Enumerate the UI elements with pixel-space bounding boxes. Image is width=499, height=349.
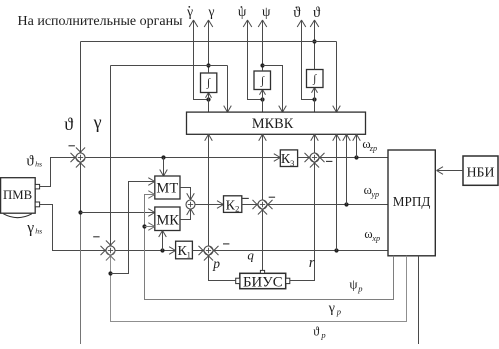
minus after K2: [242, 197, 248, 199]
svg-text:yp: yp: [370, 190, 379, 199]
label psi: [262, 4, 271, 19]
wire MKVK to integrator I2: [260, 90, 266, 113]
svg-text:γ: γ: [208, 4, 215, 19]
label gamma-dot: [186, 4, 193, 19]
label gamma (feedback): [93, 112, 102, 132]
svg-text:ψ: ψ: [238, 4, 247, 19]
wire K1S output up to MKVK: [205, 134, 213, 246]
block MKVK: [187, 112, 366, 134]
svg-text:p: p: [336, 307, 341, 317]
block MT: [155, 176, 180, 199]
junction dot theta_p to MK: [78, 210, 82, 214]
label omega_xp: [364, 227, 380, 243]
wire MKVK to integrator I1: [206, 93, 212, 113]
junction dot row3 to MK: [160, 248, 164, 252]
svg-text:p: p: [357, 284, 362, 294]
block NBI: [463, 156, 498, 185]
wire MKVK to integrator I3: [312, 88, 318, 113]
minus at K1S: [223, 243, 229, 245]
wire branch up to MK bottom: [159, 231, 167, 251]
wire gamma_p feedback: [106, 251, 407, 321]
wire theta-dot output: [297, 20, 314, 100]
svg-text:МК: МК: [156, 213, 179, 229]
junction dot omega_xp: [334, 248, 338, 252]
wire theta into MKVK: [333, 42, 341, 113]
junction dot psi-dot tap: [260, 97, 264, 101]
junction dot psi_p to MK: [142, 224, 146, 228]
wire psi-dot output: [243, 20, 262, 100]
label r: [309, 255, 315, 271]
label theta-dot: [293, 5, 301, 21]
summator S2 (gamma_hs): [106, 246, 115, 255]
wire omega_yp MRPD to K2S: [263, 200, 388, 209]
junction dot gamma feedback: [206, 63, 210, 67]
svg-text:hs: hs: [35, 159, 42, 168]
svg-text:ψ: ψ: [349, 277, 357, 292]
wire theta down left side: [76, 42, 85, 157]
summator S3 (MT+MK): [186, 200, 195, 209]
wire omega_zp up to MKVK: [353, 134, 361, 157]
wire psi output: [258, 20, 267, 71]
wire S3 to K2: [195, 201, 224, 209]
wire NBI to MRPD: [437, 167, 464, 175]
svg-text:ϑ: ϑ: [313, 325, 320, 339]
svg-text:ψ: ψ: [262, 4, 271, 19]
wire q BIUS to K2S: [258, 205, 267, 270]
label theta_p: [313, 325, 325, 340]
BIUS top pin: [260, 270, 264, 273]
svg-text:ПМВ: ПМВ: [3, 188, 32, 202]
wire theta output: [310, 20, 319, 70]
svg-text:r: r: [309, 255, 315, 271]
wire K2S output up to MKVK: [259, 134, 267, 200]
wire omega_zp MRPD to K3S: [315, 153, 388, 162]
svg-text:zp: zp: [369, 144, 377, 153]
minus at K3S: [326, 160, 332, 162]
wire theta_p to MK input: [81, 209, 155, 217]
block PMV: [1, 178, 36, 214]
wire omega_xp up to MKVK: [333, 134, 341, 250]
svg-text:НБИ: НБИ: [467, 165, 495, 180]
summator K1S: [204, 246, 213, 255]
label theta: [313, 5, 321, 21]
block K3: [280, 150, 297, 168]
wire psi_p to MK input2: [145, 223, 155, 231]
BIUS left pin: [236, 278, 240, 283]
wire gamma into MKVK: [224, 66, 232, 113]
svg-text:p: p: [320, 330, 325, 340]
label theta (feedback): [64, 114, 73, 134]
label gamma_p: [328, 301, 341, 317]
label omega_zp: [362, 137, 377, 153]
svg-text:ϑ: ϑ: [26, 154, 34, 170]
summator K3S: [310, 153, 319, 162]
svg-text:МРПД: МРПД: [393, 194, 431, 209]
wire K3 to sum K3S: [298, 153, 314, 162]
wire r BIUS to K3S: [290, 158, 319, 280]
svg-text:К: К: [226, 198, 236, 213]
wire row1 S1 to K3: [85, 154, 280, 162]
wire branch down to MT: [160, 158, 168, 177]
svg-text:1: 1: [187, 249, 191, 259]
label q: [247, 248, 254, 263]
block K2: [224, 196, 242, 214]
wire S2 to K1: [115, 247, 176, 255]
block K1: [176, 241, 193, 259]
label omega_yp: [364, 183, 380, 199]
integrator I2 (psi): [254, 71, 271, 90]
label gamma: [208, 4, 215, 19]
svg-text:ϑ: ϑ: [313, 5, 321, 21]
svg-text:ϑ: ϑ: [64, 114, 73, 134]
label p: [212, 256, 220, 271]
wire gamma_p to MT input1: [111, 178, 155, 274]
block MRPD: [388, 150, 435, 256]
svg-text:xp: xp: [371, 234, 380, 243]
wire PMV pin2 to sum S2: [40, 205, 110, 256]
wire gamma feedback row: [111, 65, 228, 67]
PMV pin 1: [35, 184, 39, 189]
wire theta feedback row: [81, 41, 337, 43]
svg-text:γ: γ: [26, 219, 34, 236]
wire omega_yp up to MKVK: [343, 134, 351, 204]
summator K2S: [258, 200, 267, 209]
summator S1 (theta_hs): [76, 153, 85, 162]
wire psi into MKVK: [263, 66, 287, 113]
PMV bottom arc: [3, 214, 31, 218]
wire K3S output up to MKVK: [311, 134, 319, 153]
wire gamma output: [204, 20, 213, 73]
integrator I3 (theta): [307, 70, 324, 88]
svg-text:МКВК: МКВК: [252, 116, 294, 132]
block MK: [155, 207, 180, 231]
svg-text:hs: hs: [35, 227, 42, 236]
wire psi_p feedback: [145, 191, 394, 300]
junction dot psi feedback: [260, 63, 264, 67]
integrator I1 (gamma): [201, 73, 217, 93]
wire K2 to sum K2S: [242, 200, 262, 209]
label theta_hs: [26, 154, 42, 170]
svg-text:ϑ: ϑ: [293, 5, 301, 21]
minus at S1: [69, 145, 75, 147]
label psi-dot: [238, 4, 247, 19]
block BIUS: [240, 273, 286, 290]
BIUS right pin: [286, 278, 290, 283]
svg-text:БИУС: БИУС: [243, 275, 283, 291]
wire MT output to S3: [180, 188, 194, 200]
svg-text:q: q: [247, 248, 254, 263]
svg-text:На исполнительные органы: На исполнительные органы: [18, 14, 184, 29]
svg-text:МТ: МТ: [156, 180, 178, 196]
wire theta_p up left side: [76, 158, 85, 344]
junction dot omega_yp: [344, 202, 348, 206]
svg-text:γ: γ: [328, 301, 335, 316]
wire PMV pin1 to sum S1: [40, 153, 80, 187]
svg-text:2: 2: [235, 204, 239, 214]
PMV pin 2: [35, 202, 39, 207]
svg-text:3: 3: [290, 158, 294, 168]
minus at S2: [93, 236, 99, 238]
label gamma_hs: [26, 219, 42, 236]
label: На исполнительные органы: [18, 14, 184, 29]
svg-text:γ: γ: [93, 112, 102, 132]
wire omega_xp MRPD to K1S: [209, 246, 388, 255]
junction dot theta-dot tap: [312, 97, 316, 101]
wire gamma-dot output: [189, 20, 208, 100]
svg-text:p: p: [212, 256, 220, 271]
svg-text:ω: ω: [364, 227, 372, 241]
wire K1 to sum K1S: [192, 246, 207, 255]
minus at K2S right: [269, 196, 275, 198]
junction dot omega_zp: [354, 155, 358, 159]
junction dot gamma_p branch: [108, 271, 112, 275]
wire theta_p from MRPD: [418, 256, 420, 344]
wire gamma down left side: [106, 66, 115, 250]
junction dot gamma-dot tap: [206, 97, 210, 101]
wire MK output to S3: [180, 209, 194, 220]
label psi_p: [349, 277, 362, 294]
junction dot theta feedback: [312, 39, 316, 43]
junction dot row1 to MT: [161, 155, 165, 159]
wire p BIUS to K1S: [204, 251, 236, 280]
